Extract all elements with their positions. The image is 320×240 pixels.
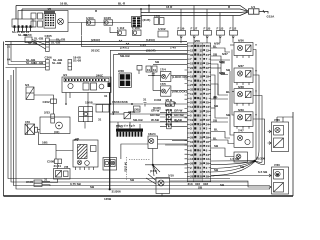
svg-text:18: 18: [190, 75, 194, 79]
connector tick 17/4: [152, 74, 155, 76]
svg-text:[1451]: [1451]: [120, 46, 129, 50]
relay sub-box 1: [31, 13, 36, 19]
connector 31-pair box a: [146, 66, 151, 72]
strip pin row 5: [188, 62, 211, 66]
connector C305 3-cell: [46, 38, 50, 52]
svg-text:34: 34: [190, 153, 194, 157]
connector 31/5 body: [132, 17, 142, 28]
7/30 sub top circle: [275, 171, 280, 176]
svg-text:1-45: 1-45: [170, 46, 176, 50]
wire y59.6: [148, 59, 187, 61]
svg-text:1/104: 1/104: [86, 16, 94, 20]
wire y53.6: [118, 53, 187, 55]
svg-text:17/5: 17/5: [160, 82, 166, 86]
svg-text:17/4: 17/4: [160, 68, 166, 72]
strip pin row 19: [188, 122, 211, 126]
V marks under fuses: [180, 37, 234, 39]
wire 17/4 left: [148, 75, 161, 77]
junction dot 31/306R: [253, 160, 255, 162]
wire strip right y68: [211, 67, 221, 69]
C505 divider: [34, 182, 42, 184]
pin grid label box: [44, 11, 55, 14]
wire x110 vert: [109, 50, 111, 104]
wire top bus D: [141, 12, 248, 16]
svg-text:22: 22: [190, 66, 194, 70]
fuse box r5: [230, 31, 238, 36]
svg-text:21: 21: [200, 144, 204, 148]
strip divider 1: [193, 43, 195, 182]
svg-text:(170): (170): [150, 169, 157, 173]
comp 6/55 sub b cross: [112, 162, 115, 165]
svg-text:31: 31: [143, 98, 147, 102]
comp 6/32 box: [156, 178, 170, 194]
wire y64.5: [8, 64, 46, 66]
7/30 stub arrows: [269, 174, 271, 189]
fuse 1/105 circle: [105, 21, 108, 24]
svg-text:3/1: 3/1: [63, 73, 68, 77]
svg-text:Y: Y: [255, 69, 257, 73]
svg-text:SB-GB: SB-GB: [133, 118, 144, 122]
svg-text:F 1/5: F 1/5: [204, 27, 211, 31]
wire x113 vert: [112, 55, 114, 114]
7/86 outer: [272, 122, 289, 152]
stack cell 1: [167, 110, 171, 115]
box 30 small: [134, 106, 141, 112]
svg-text:31: 31: [7, 45, 11, 49]
box 7/8 sub right: [64, 171, 69, 177]
wire C508 up: [56, 150, 73, 152]
wire 31-pair down: [152, 72, 154, 76]
svg-text:27: 27: [190, 83, 194, 87]
svg-text:31: 31: [200, 53, 204, 57]
svg-text:SL-GB: SL-GB: [34, 61, 44, 65]
circle 6/31 dot: [58, 125, 60, 127]
7/86 sub top circle: [275, 127, 280, 132]
svg-text:BL: BL: [226, 90, 230, 94]
svg-text:7/30: 7/30: [274, 163, 280, 167]
svg-text:04 (05): 04 (05): [124, 162, 128, 172]
strip pin row 16: [188, 109, 211, 113]
svg-text:6/37: 6/37: [238, 64, 244, 68]
module 3/1 sub-box a: [83, 83, 89, 90]
svg-text:4/56: 4/56: [194, 39, 200, 43]
svg-text:34: 34: [200, 153, 204, 157]
svg-text:[1453]: [1453]: [146, 38, 155, 42]
svg-text:Y: Y: [255, 113, 257, 117]
connector pair box on y104: [96, 105, 109, 113]
wire y54.6 to strip: [113, 54, 187, 56]
svg-text:31: 31: [190, 53, 194, 57]
module 7/1 pin marks: [76, 167, 94, 170]
svg-text:Y: Y: [255, 43, 257, 47]
fan wires: [145, 165, 187, 176]
relay 2/28 box: [119, 73, 131, 87]
pin grid outer: [44, 14, 56, 29]
strip pin row 3: [188, 53, 211, 57]
door unit 6/36: [234, 43, 253, 59]
wire drop x22: [21, 9, 23, 19]
bus V tick 1: [119, 40, 122, 42]
strip pin row 27: [188, 157, 211, 161]
svg-text:GR-SB: GR-SB: [150, 113, 161, 117]
box 7/8 sub left diag: [56, 171, 62, 178]
wire 17/5 to strip: [171, 90, 187, 92]
strip pin row 10: [188, 83, 211, 87]
7/86 sub top: [274, 126, 284, 136]
svg-text:15/08: 15/08: [120, 100, 128, 104]
wire strip to col a: [211, 48, 230, 52]
fuse box r3: [204, 31, 212, 36]
box 7/8 sub left: [56, 171, 62, 178]
junction dot x141: [140, 8, 142, 10]
circle 6/31: [56, 122, 63, 129]
svg-text:4/5 B: 4/5 B: [165, 98, 173, 102]
strip pin row 20: [188, 127, 211, 131]
wire nested 4: [8, 80, 230, 179]
svg-text:15/08: 15/08: [85, 100, 93, 104]
relay 16/24 circle cross: [150, 139, 154, 143]
wire vert x262 end: [255, 161, 262, 162]
stack cell 2: [167, 115, 171, 120]
relay sub-box 4: [38, 21, 43, 27]
svg-text:1/102: 1/102: [158, 27, 166, 31]
drop continuations into strip: [181, 35, 233, 43]
wire y61.5: [11, 61, 46, 63]
wire y176: [211, 175, 268, 178]
connector 2-cell: [51, 114, 55, 123]
door unit 6/38: [234, 89, 253, 106]
wire right col b: [232, 50, 234, 116]
wire nested 3: [11, 75, 248, 182]
C306 cell lines: [46, 63, 50, 67]
door unit 6/37: [234, 68, 253, 85]
svg-text:4/5 B: 4/5 B: [165, 113, 173, 117]
wire strip exit 5: [211, 162, 255, 176]
svg-text:7/47: 7/47: [238, 129, 244, 133]
svg-text:GR-SB: GR-SB: [174, 113, 185, 117]
wire to G15A: [259, 12, 268, 14]
wire strip exit 4: [211, 161, 255, 172]
strip pin row 28: [188, 162, 211, 166]
7/30 stub wires: [268, 176, 272, 188]
svg-text:1/1: 1/1: [251, 5, 256, 9]
svg-text:F 1/2: F 1/2: [230, 27, 237, 31]
comp 6/55 sub b: [111, 160, 116, 167]
wire 17/4 to strip: [171, 75, 187, 77]
svg-text:SL-GB: SL-GB: [28, 41, 38, 45]
svg-text:150: 150: [25, 120, 30, 124]
wire strip to col d: [211, 75, 228, 118]
strip pin row 7: [188, 70, 211, 74]
7/30 sub bottom: [274, 183, 284, 193]
svg-text:5/10: 5/10: [168, 174, 174, 178]
connector C202: [51, 99, 57, 103]
comp 6/32 cross: [159, 181, 163, 185]
strip pin row 22: [188, 135, 211, 139]
switch 17/5 circle: [162, 89, 166, 93]
wire drop x149: [148, 6, 150, 13]
svg-text:316: 316: [195, 182, 200, 186]
wire strip exit 2: [211, 161, 255, 165]
wire strip right y99: [211, 98, 228, 100]
stack cell 3: [167, 119, 171, 124]
svg-text:6/36: 6/36: [238, 39, 244, 43]
wire top bus C: [141, 11, 248, 14]
svg-text:28: 28: [190, 175, 194, 179]
svg-text:27: 27: [200, 83, 204, 87]
wire x107 vertical: [109, 93, 111, 190]
wire drop x233: [232, 16, 234, 31]
wire right vert x259: [253, 75, 259, 150]
svg-text:16/24: 16/24: [148, 132, 156, 136]
door unit 6/39: [234, 112, 253, 129]
bus y44: [5, 44, 187, 46]
C202 divider: [53, 99, 55, 103]
strip pin row 24: [188, 144, 211, 148]
relay 6/4 diagonal: [26, 87, 34, 100]
strip pin row 30: [188, 170, 211, 174]
6/32 feed diagonals: [146, 174, 156, 184]
svg-text:SL-GB: SL-GB: [56, 38, 66, 42]
C303 divider: [169, 102, 171, 106]
7/30 outer: [272, 167, 289, 194]
svg-text:[240C]: [240C]: [91, 38, 100, 42]
fuse row 2 circle 2: [133, 31, 136, 34]
svg-text:19: 19: [200, 118, 204, 122]
bus y41: [5, 41, 187, 43]
strip pin row 26: [188, 153, 211, 157]
fuse box r1: [178, 31, 186, 36]
7/86 top feeds: [277, 117, 293, 122]
connector C87 top-right: [249, 9, 260, 14]
svg-text:04: 04: [7, 58, 11, 62]
wire diag 1: [32, 40, 46, 45]
7/86 sub top cross: [276, 128, 280, 132]
svg-text:45: 45: [200, 44, 204, 48]
connector tick x145: [144, 103, 147, 107]
module 7/1 outer: [73, 140, 98, 167]
frame left: [3, 42, 5, 197]
svg-text:C303: C303: [154, 98, 162, 102]
wire y122: [110, 121, 188, 123]
2-cell divider: [51, 103, 55, 118]
X-box: [25, 124, 35, 135]
comp 6/55 sub a: [105, 160, 110, 167]
relay 16/24 box: [148, 136, 158, 149]
svg-text:W-SB: W-SB: [151, 118, 160, 122]
module 7/1 circle a cross: [78, 161, 81, 164]
connector C307 3-cell: [68, 60, 72, 71]
svg-text:19: 19: [190, 118, 194, 122]
fuse 1/105 box: [104, 20, 113, 25]
module 7/1 hatch: [78, 145, 88, 159]
wire vert x259 end: [255, 150, 259, 160]
svg-text:F 1/7: F 1/7: [191, 27, 198, 31]
wire fuse row2: [110, 32, 118, 34]
strip divider 2: [202, 43, 204, 182]
strip pin row 31: [188, 175, 211, 179]
fuse 1/104 box: [87, 20, 96, 25]
relay 6/4 inner line: [26, 92, 34, 94]
module 3/1 pin row: [64, 78, 109, 82]
svg-text:26: 26: [190, 162, 194, 166]
svg-text:318: 318: [203, 182, 208, 186]
svg-text:16B: 16B: [42, 141, 48, 145]
strip pin row 6: [188, 66, 211, 70]
fuse box r2: [191, 31, 199, 36]
strip pin row 15: [188, 105, 211, 109]
relay 2/28 dark fill: [120, 74, 130, 86]
comb 1743 teeth: [117, 132, 143, 137]
svg-text:6-5 SB: 6-5 SB: [258, 170, 268, 174]
module 7/1 circle a: [77, 160, 82, 165]
7/30 sub top: [274, 170, 284, 180]
wire top bus A: [16, 6, 248, 12]
wire y114b: [130, 113, 187, 115]
svg-text:4/5 B: 4/5 B: [165, 108, 173, 112]
wire vert x264.5 end: [255, 162, 264, 165]
fuse box r4: [217, 31, 225, 36]
svg-text:11: 11: [190, 92, 194, 96]
dashed horizontal: [129, 158, 150, 160]
strip pin row 9: [188, 79, 211, 83]
wire diag 2: [32, 41, 46, 49]
connector 1/102: [158, 31, 168, 37]
strip pin row 23: [188, 140, 211, 144]
svg-text:31: 31: [175, 119, 179, 123]
svg-text:26: 26: [200, 162, 204, 166]
junction dot y104: [131, 103, 133, 105]
fuse 1/104 circle: [87, 21, 90, 24]
svg-text:31: 31: [153, 68, 157, 72]
svg-text:(31/5): (31/5): [143, 18, 151, 22]
svg-text:17: 17: [200, 170, 204, 174]
svg-text:a b c d e f g h: a b c d e f g h: [116, 124, 135, 128]
lamp circle: [58, 19, 64, 25]
svg-text:30: 30: [190, 109, 194, 113]
svg-text:2/28: 2/28: [118, 69, 124, 73]
wire strip right y122: [211, 121, 228, 123]
wire from C305: [49, 40, 60, 42]
svg-text:31: 31: [98, 118, 102, 122]
relay 16/24 circle: [149, 138, 154, 143]
X-box diagonal 2: [25, 124, 35, 135]
module 3/1 bottom stubs: [65, 93, 187, 197]
svg-text:45: 45: [190, 44, 194, 48]
wire right col a: [230, 44, 234, 46]
svg-text:22: 22: [200, 66, 204, 70]
switch 17/4 arrow: [166, 73, 171, 80]
svg-text:2/5: 2/5: [75, 137, 80, 141]
wire drop left x16: [15, 6, 17, 20]
svg-text:2/33: 2/33: [44, 111, 50, 115]
wire vert x153: [152, 76, 154, 91]
wire strip right y60: [211, 59, 230, 61]
svg-text:SB-GB: SB-GB: [120, 54, 131, 58]
bus V tick 2: [126, 43, 129, 45]
wire drop x194: [193, 6, 195, 31]
svg-text:BL: BL: [214, 128, 218, 132]
module left connector 64/21: [12, 19, 33, 27]
strip pin row 25: [188, 149, 211, 153]
svg-text:6/36: 6/36: [214, 42, 220, 46]
junction dot x149: [148, 5, 150, 7]
module 4/5 outer box: [18, 11, 68, 32]
strip left column underlay: [188, 43, 194, 181]
frame bottom: [4, 195, 294, 197]
wire strip right y108: [211, 107, 215, 109]
svg-text:313: 313: [188, 182, 193, 186]
strip pin row 8: [188, 75, 211, 79]
svg-text:F 1/3: F 1/3: [217, 27, 224, 31]
X-box side connector: [35, 127, 38, 132]
wire drop x141 to 31/5: [140, 9, 142, 17]
svg-text:7/86: 7/86: [274, 118, 280, 122]
svg-text:25: 25: [190, 101, 194, 105]
wire C508 down: [57, 164, 59, 169]
svg-text:6/38: 6/38: [219, 60, 225, 64]
junction dots: [110, 103, 112, 105]
C305 cell lines: [46, 43, 50, 48]
svg-text:F 1/9: F 1/9: [178, 27, 185, 31]
svg-text:17/8: 17/8: [154, 14, 160, 18]
comp 6/32 circle: [158, 180, 164, 186]
strip pin row 13: [188, 96, 211, 100]
svg-text:0.75 SB: 0.75 SB: [70, 182, 82, 186]
svg-text:1-45: 1-45: [140, 43, 146, 47]
svg-text:GR-W: GR-W: [174, 109, 182, 113]
wire C505 right b: [42, 185, 50, 186]
module 3/1 circle: [68, 83, 73, 88]
wire 8/58 stub: [138, 70, 140, 74]
X-box inner line: [27, 124, 29, 135]
right column wires: [211, 45, 265, 164]
wire from X-box down: [38, 132, 57, 159]
svg-text:SL-GB: SL-GB: [52, 61, 62, 65]
7/86 stub arrows: [269, 130, 271, 145]
fuse row 2 circle 1: [118, 31, 121, 34]
svg-text:31/306: 31/306: [112, 190, 122, 194]
svg-text:29: 29: [200, 135, 204, 139]
wire y64.7: [153, 64, 187, 66]
wire from relay: [34, 95, 54, 99]
connector C306 3-cell: [46, 60, 50, 71]
svg-text:28: 28: [200, 175, 204, 179]
svg-text:25: 25: [200, 101, 204, 105]
fuse row 2 box 2: [133, 30, 142, 35]
relay 4/10 stub down: [84, 122, 86, 129]
wire right vert x256: [253, 50, 256, 161]
svg-text:135B: 135B: [104, 197, 112, 201]
box 7/8: [54, 169, 71, 180]
svg-text:2013C: 2013C: [91, 49, 101, 53]
svg-text:31: 31: [104, 94, 108, 98]
comp 6/55 box: [103, 158, 117, 171]
wire right col d: [230, 71, 234, 135]
7/86 sub bottom diag: [274, 138, 284, 148]
module 7/1 hatched sub: [78, 145, 88, 159]
svg-text:(31): (31): [54, 130, 59, 134]
wire y140.6: [172, 140, 187, 142]
switch 17/4 box: [161, 71, 171, 81]
wire drop x110: [109, 27, 111, 33]
connector C87 divider: [253, 9, 255, 14]
svg-text:(LOCK ON): (LOCK ON): [172, 75, 188, 79]
connector C508: [55, 159, 62, 164]
wire right col c: [232, 91, 234, 93]
strip pin row 12: [188, 92, 211, 96]
connector hatch diag: [124, 113, 130, 119]
